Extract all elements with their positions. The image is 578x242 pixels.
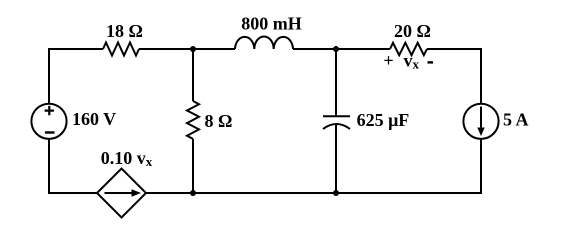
wire middle branch lower (to node C)	[192, 139, 194, 193]
wire capacitor branch upper (node B down)	[335, 49, 337, 117]
svg-text:160 V: 160 V	[72, 109, 116, 129]
resistor R 20ohm zigzag	[390, 43, 427, 55]
wire top between R18 and node A	[139, 48, 235, 50]
svg-text:800 mH: 800 mH	[241, 14, 302, 34]
dependent source U1 diamond 0.10vx	[97, 169, 146, 218]
node C junction dot	[190, 190, 196, 196]
node D junction dot	[333, 190, 339, 196]
current source I1 5A circle	[463, 104, 498, 139]
wire top-right segment	[427, 48, 482, 50]
wire bottom-left segment	[48, 192, 97, 194]
wire top between L and node B	[293, 48, 390, 50]
plus mark inside V1	[45, 106, 54, 115]
node B junction dot	[333, 46, 339, 52]
voltage source V1 160V circle	[31, 104, 66, 139]
wire left vertical upper	[48, 48, 50, 104]
wire left vertical lower	[48, 139, 50, 194]
svg-text:625 μF: 625 μF	[357, 110, 410, 130]
arrowhead of dependent source arrow	[132, 189, 142, 196]
wire top-left horizontal segment	[49, 48, 104, 50]
svg-text:+: +	[383, 50, 393, 70]
capacitor C1 top plate	[323, 115, 350, 117]
svg-text:8 Ω: 8 Ω	[205, 111, 233, 131]
wire middle branch upper (node A down)	[192, 49, 194, 101]
svg-text:20 Ω: 20 Ω	[394, 21, 431, 41]
wire bottom-right segment	[336, 192, 482, 194]
wire capacitor branch lower (to node D)	[335, 125, 337, 194]
wire bottom middle segment	[146, 192, 336, 194]
minus mark inside V1	[45, 131, 55, 133]
arrow inside dependent source	[105, 192, 133, 194]
wire right vertical lower	[480, 139, 482, 194]
inductor L 800mH	[235, 36, 293, 49]
node A junction dot	[190, 46, 196, 52]
arrowhead of current source arrow	[477, 128, 484, 137]
resistor R 18ohm zigzag	[103, 43, 139, 56]
label minus of vx	[428, 61, 434, 63]
svg-text:18 Ω: 18 Ω	[106, 21, 143, 41]
capacitor C1 bottom curved plate	[323, 124, 350, 129]
arrow shaft inside current source	[480, 107, 482, 130]
svg-text:0.10 vx: 0.10 vx	[101, 148, 153, 169]
resistor R 8ohm vertical zigzag	[187, 101, 199, 139]
wire right vertical upper	[480, 48, 482, 104]
svg-text:5 A: 5 A	[503, 109, 529, 129]
